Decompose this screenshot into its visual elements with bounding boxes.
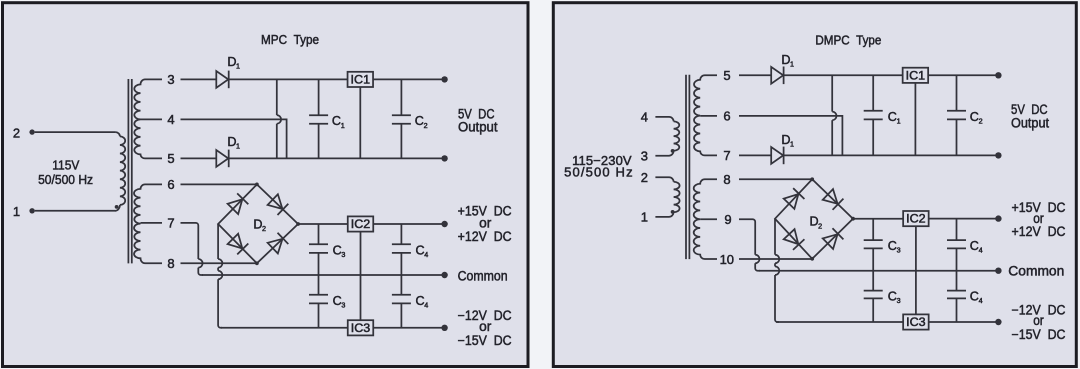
regulator IC3 (DMPC)	[903, 314, 929, 329]
regulator IC2 (MPC)	[348, 216, 374, 231]
diode D1 (top, DMPC)	[771, 67, 783, 85]
svg-text:3: 3	[897, 246, 901, 255]
wire minus descent mid	[217, 268, 219, 271]
stub tap 4	[141, 118, 163, 120]
svg-text:2: 2	[818, 221, 822, 230]
label 1 for diode D1 (top, MPC)	[227, 55, 240, 71]
svg-text:DMPC Type: DMPC Type	[815, 33, 881, 47]
wire +V rail (DMPC)	[853, 218, 903, 220]
label 1 for diode D1 (second, MPC)	[227, 135, 240, 151]
bridge diode D2c (DMPC lower-left)	[783, 229, 804, 250]
svg-text:1: 1	[236, 142, 240, 151]
wire primary bottom corner	[35, 205, 120, 211]
svg-text:4: 4	[167, 112, 174, 127]
diode D1 (top, MPC)	[216, 71, 228, 89]
svg-text:1: 1	[641, 210, 648, 225]
MPC panel frame	[3, 3, 529, 367]
phase dot primary	[115, 205, 119, 209]
wire hop to 5V return join	[276, 124, 278, 159]
node bridge bottom vertex	[255, 261, 259, 265]
wire common to IC3	[360, 275, 362, 320]
svg-text:50/500 Hz: 50/500 Hz	[38, 172, 93, 187]
node 5V return output	[441, 155, 447, 161]
wire tap 6 center tap	[739, 116, 842, 155]
wire IC2 to +15 output (DMPC)	[929, 218, 996, 220]
svg-text:Output: Output	[458, 119, 498, 134]
svg-text:1: 1	[236, 62, 240, 71]
wire bridge minus descent upper	[217, 224, 219, 259]
wire +V rail	[298, 223, 347, 225]
wire rail junction down DMPC	[831, 75, 833, 111]
wire IC2 ground to common (DMPC)	[915, 226, 917, 271]
wire common to IC3 (DMPC)	[915, 271, 917, 315]
wire common rail (DMPC)	[759, 270, 996, 272]
value label C1 (MPC)	[332, 114, 345, 130]
value label C4 (DMPC lower)	[970, 290, 983, 306]
wire tap 7 to common (down)	[181, 223, 199, 259]
diode D1 (second, MPC)	[216, 150, 228, 168]
svg-text:2: 2	[13, 125, 20, 140]
bridge diode D2d (DMPC lower-right)	[822, 228, 843, 249]
svg-text:C: C	[332, 114, 341, 128]
svg-text:1: 1	[341, 121, 345, 130]
svg-text:C: C	[970, 290, 979, 304]
svg-text:7: 7	[167, 216, 174, 231]
capacitor C2 (MPC) lead/plates	[392, 79, 411, 158]
wire IC1 ground pin	[359, 87, 361, 158]
wire IC1 ground pin (DMPC)	[914, 83, 916, 155]
svg-text:IC1: IC1	[351, 75, 371, 87]
svg-text:C: C	[970, 110, 979, 124]
phase dot primary A	[671, 149, 675, 153]
svg-text:1: 1	[790, 60, 794, 69]
svg-text:Output: Output	[1011, 116, 1049, 131]
svg-text:4: 4	[979, 246, 983, 255]
value label C3 (DMPC lower)	[888, 290, 901, 306]
capacitor C4 (DMPC lower) lead/plates	[947, 271, 966, 322]
wire -V rail	[221, 327, 348, 329]
svg-text:115V: 115V	[52, 158, 79, 173]
svg-text:IC3: IC3	[351, 323, 371, 335]
node +15V output (DMPC)	[995, 215, 1001, 221]
svg-text:−15V DC: −15V DC	[458, 333, 512, 348]
label D2 (DMPC)	[810, 215, 823, 231]
regulator IC2 (DMPC)	[903, 211, 929, 226]
wire minus hop over tap 10	[775, 255, 779, 264]
value label C3 (MPC upper)	[333, 243, 346, 259]
svg-text:4: 4	[979, 296, 983, 305]
node bridge top vertex	[255, 183, 259, 187]
capacitor C3 (MPC upper) lead/plates	[309, 224, 328, 275]
wire IC2 ground to common	[360, 232, 362, 275]
terminal 2	[29, 129, 34, 134]
wire tap 5 to D1	[739, 74, 771, 76]
wire IC1 to output	[373, 78, 442, 80]
node common output	[441, 272, 447, 278]
wire 5V return rail (DMPC)	[784, 154, 996, 156]
wire terminal 4 to primary A	[655, 117, 673, 122]
svg-text:2: 2	[424, 121, 428, 130]
svg-text:4: 4	[424, 250, 428, 259]
stub tap 6	[700, 115, 717, 117]
capacitor C4 (MPC upper) lead/plates	[392, 224, 411, 275]
wire minus descent hop over tap 8	[218, 259, 222, 268]
bridge diode D2a (upper-left)	[227, 193, 248, 214]
svg-text:Common: Common	[1008, 263, 1064, 278]
value label C3 (DMPC upper)	[888, 239, 901, 255]
secondary winding S1 (taps 5-6-7)	[694, 75, 717, 155]
wire common rail	[202, 274, 442, 276]
wire tap 5 to D1b	[181, 157, 217, 159]
secondary winding S1 (taps 3-4-5)	[134, 79, 162, 158]
bridge diode D2b (upper-right)	[267, 194, 288, 215]
svg-text:10: 10	[720, 252, 734, 267]
capacitor C2 (DMPC) lead/plates	[947, 75, 966, 155]
node common output (DMPC)	[995, 268, 1001, 274]
wire D1 to IC1 (DMPC +5 rail)	[784, 74, 903, 76]
regulator IC1 (DMPC)	[903, 68, 929, 83]
svg-text:1: 1	[897, 117, 901, 126]
wire primary top corner	[115, 132, 120, 136]
svg-text:8: 8	[723, 172, 730, 187]
wire tap 7 descent to common corner	[198, 268, 203, 275]
svg-text:3: 3	[897, 296, 901, 305]
svg-text:C: C	[970, 239, 979, 253]
svg-text:−15V DC: −15V DC	[1012, 327, 1066, 342]
capacitor C3 (DMPC upper) lead/plates	[864, 219, 883, 271]
wire minus hop over common (DMPC)	[775, 266, 779, 275]
wire hop over tap 6 wire	[832, 112, 836, 121]
wire 5V return rail	[229, 157, 442, 159]
svg-text:8: 8	[167, 256, 174, 271]
svg-text:C: C	[333, 294, 342, 308]
svg-text:or: or	[479, 319, 492, 334]
node 5V return output (DMPC)	[995, 152, 1001, 158]
wire tap7 hop over tap 8 wire	[198, 259, 202, 268]
svg-text:MPC Type: MPC Type	[261, 33, 319, 47]
value label C1 (DMPC)	[888, 110, 901, 126]
secondary winding S2 (taps 6-7-8)	[134, 184, 162, 263]
svg-text:C: C	[333, 243, 342, 257]
wire rail junction down (hop over tap4)	[276, 79, 278, 115]
svg-text:5: 5	[723, 68, 730, 83]
wire tap 6 to bridge top	[181, 183, 257, 185]
capacitor C4 (DMPC upper) lead/plates	[947, 219, 966, 271]
node bridge top vertex (DMPC)	[810, 177, 814, 181]
diode D1 (second, DMPC)	[771, 147, 783, 165]
label 1 for diode D1 (top, DMPC)	[781, 53, 794, 69]
value label C4 (MPC lower)	[416, 294, 429, 310]
svg-text:Common: Common	[458, 268, 508, 283]
primary winding P1 (115V)	[120, 136, 125, 205]
svg-text:1: 1	[13, 204, 20, 219]
wire tap 10 to bridge bottom	[739, 258, 812, 260]
svg-text:IC2: IC2	[906, 214, 926, 226]
node bridge right vertex	[296, 222, 300, 226]
svg-text:2: 2	[979, 117, 983, 126]
svg-text:6: 6	[723, 109, 730, 124]
svg-text:4: 4	[424, 301, 428, 310]
svg-text:C: C	[416, 243, 425, 257]
regulator IC3 (MPC)	[348, 320, 374, 335]
capacitor C4 (MPC lower) lead/plates	[392, 275, 411, 328]
value label C4 (DMPC upper)	[970, 239, 983, 255]
svg-text:2: 2	[641, 170, 648, 185]
primary winding PB (terminals 2-1)	[674, 182, 680, 212]
transformer core	[128, 79, 131, 263]
node bridge right vertex (DMPC)	[851, 217, 855, 221]
wire bridge minus descent upper (DMPC)	[774, 219, 776, 255]
wire D1 to IC1 (+5 rail)	[229, 78, 348, 80]
value label C2 (MPC)	[415, 114, 428, 130]
label D2	[253, 217, 266, 233]
svg-text:C: C	[888, 110, 897, 124]
svg-text:C: C	[416, 294, 425, 308]
wire tap 8 to bridge top (DMPC)	[739, 178, 812, 180]
node +15V output	[441, 221, 447, 227]
stub tap 9	[700, 218, 717, 220]
bridge diode D2c (lower-left)	[227, 233, 248, 254]
capacitor C1 (DMPC) lead/plates	[864, 75, 883, 155]
svg-text:50/500 Hz: 50/500 Hz	[564, 165, 633, 180]
svg-text:IC1: IC1	[906, 70, 926, 82]
node 5V output	[441, 76, 447, 82]
wire tap9 hop over tap 10 wire	[755, 255, 759, 264]
capacitor C3 (DMPC lower) lead/plates	[864, 271, 883, 322]
svg-text:C: C	[888, 290, 897, 304]
wire terminal 2 to primary	[35, 131, 116, 133]
wire IC3 to -15 output	[373, 327, 442, 329]
label 1 for diode D1 (second, DMPC)	[781, 133, 794, 149]
wire hop continue to return	[831, 120, 833, 155]
wire tap 4 center tap	[181, 119, 287, 158]
wire minus descent to -V rail (DMPC)	[775, 275, 779, 322]
svg-text:2: 2	[262, 224, 266, 233]
svg-text:3: 3	[341, 250, 345, 259]
wire primary A exit to terminal 3	[655, 151, 673, 156]
secondary winding S2 (taps 8-9-10)	[694, 179, 717, 259]
phase dot primary B	[671, 210, 675, 214]
svg-text:IC2: IC2	[351, 219, 371, 231]
svg-text:C: C	[415, 114, 424, 128]
node 5V output (DMPC)	[995, 72, 1001, 78]
wire tap 7 to D1b (DMPC)	[739, 154, 771, 156]
bridge rectifier D2 diamond (MPC)	[218, 184, 298, 263]
wire IC2 to +15 output	[373, 223, 442, 225]
svg-text:3: 3	[341, 301, 345, 310]
svg-text:5: 5	[167, 151, 174, 166]
wire tap 9 descent to common corner	[755, 263, 760, 270]
node -15V output	[441, 325, 447, 331]
wire tap 9 to common (down)	[739, 219, 755, 254]
stub tap 7	[141, 222, 163, 224]
regulator IC1 (MPC)	[348, 72, 374, 87]
wire terminal 2 to primary B	[655, 177, 673, 182]
value label C2 (DMPC)	[970, 110, 983, 126]
svg-text:3: 3	[167, 72, 174, 87]
capacitor C3 (MPC lower) lead/plates	[309, 275, 328, 328]
terminal 1	[29, 208, 34, 213]
wire primary B exit to terminal 1	[655, 212, 673, 217]
wire tap 8 to bridge bottom	[181, 262, 257, 264]
primary winding PA (terminals 4-3)	[674, 121, 680, 150]
svg-text:+12V DC: +12V DC	[1012, 224, 1066, 239]
wire IC1 to output (DMPC)	[928, 74, 995, 76]
svg-text:+12V DC: +12V DC	[458, 229, 512, 244]
wire minus descent to -V rail	[218, 279, 222, 328]
bridge diode D2b (DMPC upper-right)	[822, 189, 843, 210]
svg-text:3: 3	[641, 148, 648, 163]
svg-text:6: 6	[167, 177, 174, 192]
bridge diode D2a (DMPC upper-left)	[783, 188, 804, 209]
svg-text:4: 4	[641, 110, 648, 125]
capacitor C1 (MPC) lead/plates	[309, 79, 328, 158]
wire minus descent mid (DMPC)	[774, 263, 776, 266]
node bridge bottom vertex (DMPC)	[810, 257, 814, 261]
value label C3 (MPC lower)	[333, 294, 346, 310]
svg-text:9: 9	[724, 212, 731, 227]
wire tap 3 to D1	[181, 78, 217, 80]
transformer core (DMPC)	[686, 75, 689, 259]
wire -V rail (DMPC)	[776, 321, 903, 323]
svg-text:7: 7	[723, 148, 730, 163]
value label C4 (MPC upper)	[416, 243, 429, 259]
wire hop over tap 4 wire	[277, 115, 281, 124]
DMPC panel frame	[553, 3, 1076, 367]
node -15V output (DMPC)	[995, 319, 1001, 325]
svg-text:IC3: IC3	[906, 317, 926, 329]
svg-text:1: 1	[790, 140, 794, 149]
bridge diode D2d (lower-right)	[267, 233, 288, 254]
wire IC3 to -15 output (DMPC)	[929, 321, 996, 323]
svg-text:or: or	[1033, 313, 1044, 328]
svg-text:C: C	[888, 239, 897, 253]
bridge rectifier D2 diamond (DMPC)	[775, 179, 853, 258]
wire minus descent hop over common	[218, 271, 222, 280]
